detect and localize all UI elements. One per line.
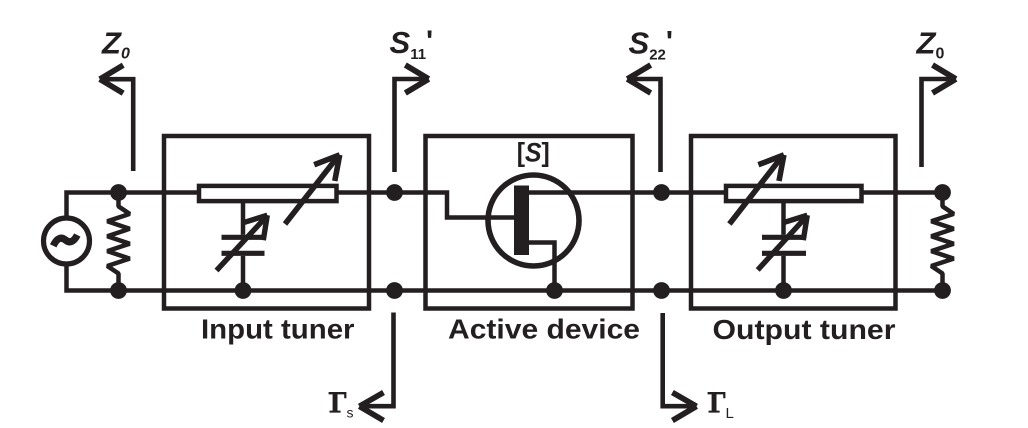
wire C2 bottom stem <box>781 256 786 291</box>
resistor R1 (source termination Z0) <box>107 193 129 291</box>
transistor Q1 circle <box>488 175 579 266</box>
C1 bottom plate <box>222 251 265 256</box>
variable capacitor C2 in output tuner <box>762 202 806 291</box>
svg-text:Z0: Z0 <box>916 26 945 63</box>
AC source V1 <box>44 218 90 264</box>
wire from output attenuator to right load <box>861 190 943 195</box>
svg-text:S22': S22' <box>629 26 674 64</box>
svg-text:Output tuner: Output tuner <box>713 314 896 345</box>
node: S11 plane bottom junction <box>386 282 403 299</box>
node: load top junction <box>934 184 951 201</box>
variable arrow across C2 <box>758 215 808 270</box>
reference plane arrow Z0 (left) <box>100 65 133 171</box>
variable arrow across output attenuator <box>729 155 784 224</box>
active device box <box>426 136 633 309</box>
wire C1 top stem <box>241 202 246 235</box>
wire bottom rail <box>67 264 945 291</box>
wire collector to output attenuator <box>527 190 725 195</box>
resistor R2 (load termination Z0) <box>931 193 953 291</box>
label Gamma_S <box>329 392 347 413</box>
reference plane arrow S11' <box>395 65 429 172</box>
node: emitter junction <box>546 282 563 299</box>
output tuner box <box>691 136 896 309</box>
wire top-left from source to input attenuator <box>67 193 198 219</box>
C2 bottom plate <box>762 251 806 256</box>
reflection coefficient arrow Gamma_S <box>359 313 393 421</box>
wire C2 top stem <box>781 202 786 235</box>
transistor Q1 emitter wire <box>527 243 555 291</box>
reference plane arrow Z0 (right) <box>922 65 956 167</box>
svg-text:s: s <box>347 405 354 421</box>
wire from input attenuator to transistor base (with jog) <box>335 193 517 218</box>
node: S22 plane bottom junction <box>653 282 670 299</box>
AC source V1 sine symbol <box>53 235 77 246</box>
variable arrow across input attenuator <box>285 155 340 224</box>
reference plane arrow S22' <box>627 65 660 172</box>
svg-text:Z0: Z0 <box>101 26 130 63</box>
node: S22 plane top junction <box>653 184 670 201</box>
input tuner box <box>164 136 369 309</box>
variable attenuator (slab) in output tuner <box>726 186 862 201</box>
svg-text:S11': S11' <box>390 25 434 63</box>
wire C1 bottom stem <box>241 256 246 291</box>
node: C2 bottom junction <box>775 282 792 299</box>
node: load bottom junction <box>934 282 951 299</box>
transistor Q1 base bar <box>514 186 529 256</box>
node: C1 bottom junction <box>235 282 252 299</box>
C2 top plate <box>762 235 806 240</box>
node: source top junction <box>110 184 127 201</box>
C1 top plate <box>222 235 265 240</box>
node: S11 plane top junction <box>386 184 403 201</box>
variable capacitor C1 in input tuner <box>222 202 265 291</box>
variable arrow across C1 <box>217 215 268 270</box>
svg-text:Input tuner: Input tuner <box>201 314 355 345</box>
svg-text:Active device: Active device <box>448 314 640 345</box>
label Gamma_L <box>708 392 726 413</box>
svg-text:[S]: [S] <box>517 138 550 168</box>
reflection coefficient arrow Gamma_L <box>663 313 697 421</box>
svg-text:L: L <box>726 405 734 422</box>
variable attenuator (slab) in input tuner <box>199 186 337 201</box>
AC source V1 circle <box>44 218 90 264</box>
node: source bottom junction <box>110 282 127 299</box>
